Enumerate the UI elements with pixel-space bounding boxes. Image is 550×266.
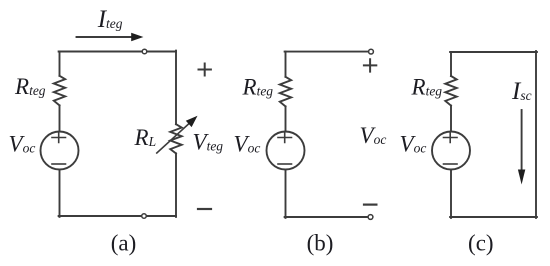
svg-text:Voc: Voc	[9, 132, 36, 157]
current arrow I_teg	[77, 36, 132, 38]
wire: circuit (a) right branch upper	[175, 51, 177, 125]
svg-text:RL: RL	[134, 125, 157, 150]
wire: circuit (b) left vertical mid stub	[285, 106, 287, 131]
variable resistor arrow across R_L	[157, 123, 190, 153]
wire: circuit (c) bottom wire	[450, 216, 537, 218]
svg-text:Voc: Voc	[400, 132, 427, 157]
wire: circuit (c) left vertical top stub	[450, 52, 452, 76]
wire: circuit (c) top wire	[450, 51, 537, 53]
wire: circuit (b) bottom wire	[285, 216, 368, 218]
svg-text:Isc: Isc	[511, 78, 532, 105]
wire: circuit (c) right vertical wire	[535, 51, 537, 218]
wire: circuit (a) top wire	[59, 51, 176, 53]
resistor R_teg (a) zigzag	[54, 76, 65, 106]
wire: circuit (c) left vertical bottom stub	[450, 170, 452, 218]
resistor R_teg (c) zigzag	[445, 76, 456, 106]
svg-text:Rteg: Rteg	[14, 74, 46, 99]
minus sign of V_oc output	[364, 204, 376, 206]
wire: circuit (a) left vertical bottom stub	[59, 170, 61, 217]
voltage source V_oc (b) circle	[267, 132, 305, 170]
minus sign of V_teg	[198, 208, 211, 210]
svg-text:(a): (a)	[111, 231, 137, 256]
node: circuit (b) bottom open terminal	[368, 215, 373, 220]
wire: circuit (a) left vertical mid stub	[59, 105, 61, 131]
voltage source V_oc (c) plus mark	[444, 133, 458, 143]
wire: circuit (b) top wire	[285, 51, 369, 53]
node: circuit (a) bottom terminal	[142, 214, 147, 219]
svg-text:(c): (c)	[468, 231, 494, 256]
wire: circuit (c) left vertical mid stub	[450, 106, 452, 132]
node: circuit (b) top open terminal	[369, 49, 374, 54]
current arrow I_sc	[521, 110, 523, 170]
resistor R_teg (b) zigzag	[280, 77, 291, 107]
resistor R_L (a) zigzag	[170, 124, 181, 153]
wire: circuit (a) right branch lower	[175, 153, 177, 217]
plus sign of V_teg	[199, 64, 211, 76]
node: circuit (a) top terminal	[142, 49, 147, 54]
plus sign of V_oc output	[364, 59, 376, 71]
svg-text:(b): (b)	[307, 231, 334, 256]
wire: circuit (b) left vertical top stub	[285, 52, 287, 77]
wire: circuit (a) left vertical top stub	[59, 52, 61, 76]
wire: circuit (a) bottom wire	[59, 215, 176, 217]
svg-text:Rteg: Rteg	[411, 75, 443, 100]
svg-text:Voc: Voc	[360, 123, 387, 148]
wire: circuit (b) left vertical bottom stub	[285, 170, 287, 218]
voltage source V_oc (c) minus mark	[444, 163, 458, 165]
voltage source V_oc (a) minus mark	[52, 163, 66, 165]
voltage source V_oc (c) circle	[432, 132, 470, 170]
voltage source V_oc (b) minus mark	[278, 163, 292, 165]
voltage source V_oc (a) circle	[41, 132, 79, 170]
voltage source V_oc (b) plus mark	[278, 133, 292, 143]
svg-text:Vteg: Vteg	[193, 130, 224, 155]
voltage source V_oc (a) plus mark	[52, 133, 66, 143]
svg-text:Voc: Voc	[234, 132, 261, 157]
svg-text:Rteg: Rteg	[242, 75, 274, 100]
svg-text:Iteg: Iteg	[97, 6, 123, 33]
